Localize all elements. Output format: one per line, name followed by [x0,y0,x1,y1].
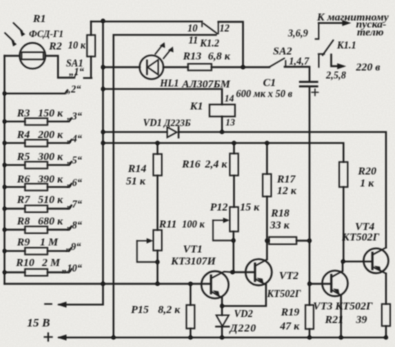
wire VT3 emitter down [340,295,342,337]
potentiometer R11 [137,230,162,262]
node base rail / R11 [155,282,159,286]
wire C1 minus vertical down [309,86,311,284]
wire emitters common to VD2 [222,285,266,306]
resistor R21 [382,304,390,326]
diode VD2 [216,315,229,326]
node plus bus / VT3 emitter [339,335,343,339]
node plus bus / contact11 branch [111,335,115,339]
node load bus / R16 [232,141,236,145]
node C1 minus / VT3 base / R19 [307,282,311,286]
wire VD1 row left [103,131,167,133]
node emitters / VD2 [220,304,224,308]
node contact 12 tick [217,22,219,34]
wire base rail [5,283,212,285]
resistor R15 [186,305,194,329]
node coil pin13 / VD1 row [220,130,224,134]
resistor R20 [339,162,348,187]
resistor R8 row [5,226,72,233]
wire R14-R11 chain [157,176,159,231]
node K1.2 branch / LED row [241,65,245,69]
node base rail / R15 [188,282,192,286]
relay coil K1 [210,105,236,117]
node ladder bus row5 [2,163,6,167]
switch SA2 arm [269,58,284,67]
wire R11 bottom lead [157,251,159,284]
wire VT3 collector riser [342,262,344,272]
resistor R14 [153,154,162,176]
wire K1 coil pin14 branch [103,89,222,105]
node minus bus / base rail [101,282,105,286]
node load bus / R17 [265,141,269,145]
wire R19 bottom lead [309,329,311,338]
node ladder bus row9 [2,249,6,253]
wire VT2 collector riser [266,241,268,260]
wire LED row left [103,66,140,68]
resistor R5 row [5,162,72,169]
wire R20 bottom lead [343,187,345,262]
node SA2 fixed contact tick [285,61,287,67]
wire minus bus vertical [102,21,104,284]
node ladder bus row2 [2,91,6,95]
wire R17 bottom lead [266,197,268,241]
plus terminal arrow [57,335,67,341]
transistor VT3 [322,271,348,297]
node plus bus / R21 [384,335,388,339]
resistor R10 row [5,269,72,276]
wire R12 to VT1 collector node [233,232,235,273]
resistor R16 [230,154,239,176]
resistor R17 [263,174,272,197]
node contact 10 tick [201,22,203,27]
wire R16 top lead [233,143,235,154]
resistor R6 row [5,184,72,191]
wire R14 top lead [157,143,159,154]
node load bus / R14 [155,141,159,145]
wire VD2 top lead [221,306,223,315]
switch SA1 row 2 wire [5,90,68,93]
wire K1 coil pin13 down [221,117,223,133]
resistor R18 [267,237,310,244]
node VT3 collector / VT4 base / R20 [341,259,345,263]
node minus bus / load bus [101,141,105,145]
photoresistor R1 [5,23,77,78]
resistor R7 row [5,205,72,212]
wire R15 top lead [190,284,192,305]
wire SA2 to C1 [285,67,310,82]
wire plus bus [59,337,386,339]
node R18 / C1 minus [307,239,311,243]
resistor R2 [84,22,95,79]
node plus bus / R15 [188,335,192,339]
capacitor C1 [300,82,318,96]
node minus bus / VD1 row [101,130,105,134]
node R11 wiper tie [155,260,159,264]
wire R17 top lead [266,143,268,174]
resistor R9 row [5,248,72,255]
node ladder bus row6 [2,185,6,189]
node ladder bus row8 [2,228,6,232]
diode VD1 [167,127,178,138]
relay contact K1.1 block [316,20,352,69]
wire VT4 emitter down / R21 leads [385,274,387,338]
wire R15 bottom lead [190,329,192,338]
wire top bus right of K1.2 [218,22,243,67]
resistor R13 [188,64,212,71]
wire R13 to junction [212,66,270,68]
wire VT3 base [310,283,332,285]
wire VT2 base [233,271,256,273]
LED HL1 [140,42,174,79]
wire minus bus to minus terminal [59,284,103,305]
transistor VT1 [201,271,232,298]
wire top bus (minus rail top) [91,21,202,23]
minus terminal arrow [57,302,67,308]
wire VD2 bottom lead [221,327,223,338]
wire R19 top lead [309,284,311,305]
wire VT4 base [344,261,373,263]
wire load bus y143 [103,143,344,162]
node minus bus / LED row [101,65,105,69]
wire LED to R13 [163,66,188,68]
relay contact K1.2 arm [204,24,218,34]
transistor VT2 [246,259,272,285]
node ladder bus row7 [2,207,6,211]
resistor R3 row [5,118,72,125]
transistor VT4 [364,248,389,274]
node ladder bus row10 [2,270,6,274]
wire R16-R12 chain [233,176,235,208]
node ladder bus row4 [2,141,6,145]
node VT1 collector / VT2 base [230,270,234,274]
wire contact 11 branch [114,35,217,338]
wire left ladder bus [4,56,6,284]
node plus bus / VD2 [220,335,224,339]
node minus bus top [101,19,105,23]
resistor R19 [305,305,313,329]
node R17 / R18 / VT2 collector [265,239,269,243]
minus sign [45,303,52,305]
node plus bus / R19 [307,335,311,339]
potentiometer R12 [213,207,238,241]
node R12 wiper tie [231,238,235,242]
node ladder bus row3 [2,119,6,123]
wire VD1 to right edge, down to VT4 collector [179,132,386,248]
resistor R4 row [5,140,72,147]
node minus bus / coil row [101,87,105,91]
plus sign [45,333,53,341]
